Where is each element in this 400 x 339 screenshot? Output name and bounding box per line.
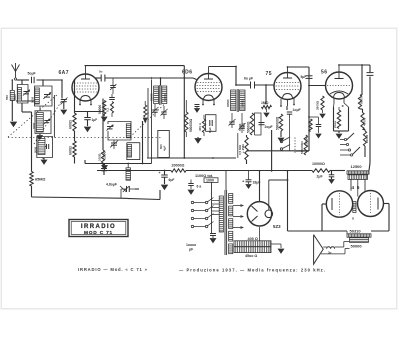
resistor R3 50000 [103,101,106,115]
loop L4 [35,111,51,134]
svg-text:4μF: 4μF [163,145,167,151]
svg-text:1μF: 1μF [92,118,98,122]
component box 4uF [158,131,170,158]
IFT1 lead [160,78,162,86]
svg-text:2600Ω: 2600Ω [316,100,320,110]
tube 6D6 top cap [204,78,213,80]
tube 75 cathode arc [283,94,293,100]
dashed link IF [130,105,164,138]
ground G7 [37,136,42,140]
bottom bus b [120,198,160,199]
coil L5 [38,139,45,155]
tube 5Z3 envelope [247,202,271,226]
svg-text:55913: 55913 [163,93,167,101]
svg-text:2oμF: 2oμF [265,125,273,129]
switch S1 wires [340,139,344,141]
resistor R18 [363,131,366,146]
varcap CV4 [44,120,49,122]
coil L8 [126,168,131,180]
ground G2 [43,158,45,160]
wire L5 stub [42,158,44,160]
wire 56 grid [309,85,326,87]
label box inner [71,222,126,235]
tube 6A7 envelope [72,74,99,101]
wire bus left [85,163,152,165]
transformer T3 secondary [229,194,233,204]
svg-text:5000: 5000 [360,97,364,104]
cathode loop [333,107,335,131]
resistor R2 600ohm [73,141,76,157]
resistor R25 100ohm [101,150,104,163]
wire pin bus [75,111,104,113]
tuning capacitor CV2 [44,94,50,96]
gang dashed link a [8,94,58,137]
wire pot bottom [296,150,309,152]
ground G6 [271,243,281,245]
wire 5Z3 cathode out [268,180,270,210]
wire bus drop to IFT2 [235,67,237,86]
IFT1 winding a [154,86,159,104]
capacitor C18 6uF [190,180,192,184]
wire bus to speaker [287,171,289,231]
tube 56 cathode arc [334,93,345,99]
grid loop [255,113,262,135]
right edge wire [369,65,371,72]
tube 56 top cap [335,78,344,80]
transformer T1 leads [350,179,352,190]
resistor R12 500000 [279,114,282,131]
wire 6A7 top bus [85,65,185,67]
transformer T3 core [224,190,226,255]
wire L4 stubs [39,106,41,111]
bottom bus [32,197,121,198]
svg-text:6D6: 6D6 [182,70,192,76]
tube 56 grid dash [327,85,351,87]
IFT2 winding b [240,90,245,111]
svg-text:2μF: 2μF [317,175,323,179]
svg-text:50000Ω: 50000Ω [247,121,251,133]
switch S1 contacts [344,138,346,140]
wire IFT2 to 75 diode [236,84,251,86]
IFT1 trimmer a [152,109,158,111]
svg-text:550: 550 [5,95,9,100]
IFT1 winding b [162,86,167,104]
svg-text:6600: 6600 [13,94,17,101]
tuning capacitor CV1 [23,91,29,93]
svg-text:65MΩ: 65MΩ [35,178,45,182]
wire cathode line [102,99,104,151]
IFT2 trimmer a [229,121,235,123]
IFT2 winding a [231,90,236,111]
capacitor C14 60pF [250,82,252,89]
svg-text:IRRADIO — Mod. « C 71 »: IRRADIO — Mod. « C 71 » [78,267,148,272]
capacitor C17 right [367,72,374,74]
svg-text:— Produzione 1937. — Media: — Produzione 1937. — Media frequenza: 23… [179,267,325,272]
tone wire [246,135,248,137]
tube 45 left grid [339,193,341,215]
capacitor C9 10uF [209,120,211,126]
T3 arrows [233,205,243,207]
svg-text:500000Ω: 500000Ω [189,118,193,132]
tube 5Z3 plates [252,206,258,212]
transformer T1 winding [348,175,368,180]
gang dashed link b [34,101,62,145]
osc varcap CV3 [107,126,113,128]
svg-text:600Ω: 600Ω [69,146,73,155]
IFT2 core [236,89,238,112]
svg-text:5μF: 5μF [301,75,307,79]
tube 45 left [326,191,352,217]
tone resistor R19 [245,137,248,160]
resistor R24 screen [144,105,147,117]
wire L1 to ground [11,101,13,122]
IFT2 trimmer b [239,125,245,127]
speaker voice coil [327,247,335,249]
resistor R11 1Mohm [262,105,272,108]
junction dots [235,66,237,68]
IFT1 core [159,85,161,105]
svg-text:+: + [159,171,161,175]
tube 6D6 pins [202,100,204,104]
wire 6A7 plate line [95,77,101,79]
switch S2 [280,140,282,142]
B+ bus [97,170,171,172]
wire diode load [265,85,267,105]
svg-text:6 a: 6 a [197,185,202,189]
svg-text:40000: 40000 [363,117,367,126]
ground G8 [63,102,65,109]
resistor R6 10000 [312,169,330,172]
capacitor C11 [286,106,288,110]
resistor R10 50000 [250,113,253,135]
tube 6A7 top cap [81,78,90,80]
resistor R16 [358,95,361,109]
svg-text:500000Ω: 500000Ω [300,141,304,154]
svg-text:0200: 0200 [31,96,35,103]
transformer T2 winding [350,238,369,243]
svg-text:0 μF: 0 μF [208,127,212,133]
svg-text:5o: 5o [99,70,103,74]
wire AVC drop [53,95,55,138]
svg-text:600: 600 [159,144,163,149]
wire loop1 top to line [21,80,23,85]
svg-text:5Z3: 5Z3 [273,224,281,229]
svg-text:MOD C 71: MOD C 71 [84,230,113,236]
capacitor C8 mains [126,186,128,192]
wire antenna to C1 [17,79,29,81]
tube 45 right plate [377,198,379,210]
osc loop 2 [127,143,140,160]
coil L4 wave band [36,113,43,133]
plate supply vertical [183,66,185,158]
svg-text:1000: 1000 [103,151,107,159]
coil L1 primary [10,91,14,101]
tube 45 left plate [331,198,333,210]
tube 56 pins [333,98,335,103]
svg-text:45oo Ω: 45oo Ω [245,254,257,258]
capacitor C12 [309,116,319,118]
filament coils [353,202,356,213]
svg-text:56: 56 [321,70,328,76]
trimmer C22 [112,78,114,85]
wire 75 top bus [288,66,310,68]
T3 selector wires [194,202,205,204]
padder capacitor C2 [46,144,48,149]
tube 6D6 grids [197,82,219,84]
label box outer [69,220,128,237]
resistor R15 cathode [337,110,340,129]
capacitor C15 on drop [306,75,313,77]
coil L2 secondary [18,88,22,102]
wire chain [360,94,362,96]
wire R1 [74,80,76,113]
wire risers [147,88,149,158]
resistor R9 400 [202,119,205,133]
svg-text:pF: pF [189,248,193,252]
resistor R17 [361,113,364,130]
capacitor C5 [103,164,105,169]
capacitor C6 6uF [164,171,166,175]
wire mid bus [147,157,236,159]
svg-text:6A7: 6A7 [59,70,69,76]
svg-text:02500: 02500 [226,99,230,107]
tank loop L2 [17,85,28,104]
tube 75 envelope [274,73,301,100]
svg-text:50310: 50310 [350,229,362,234]
bypass loop [206,115,217,132]
svg-text:400 Ω: 400 Ω [248,237,258,241]
wire grid bus [61,80,63,99]
tube 6D6 envelope [195,74,222,101]
svg-text:100Ω: 100Ω [98,153,102,161]
svg-text:50000: 50000 [98,105,102,114]
svg-text:6μF: 6μF [169,178,175,182]
ground G1 [11,122,17,127]
svg-text:20000Ω: 20000Ω [172,164,185,168]
svg-text:12500: 12500 [351,164,363,169]
capacitor C19 10000pF [210,233,216,235]
svg-text:75: 75 [266,71,273,77]
tube 45 right grid [370,193,372,214]
ballast box 1000 [204,178,218,183]
transformer T3 primary [219,196,223,232]
junction [42,79,44,81]
tube 75 top cap [283,77,292,79]
transformer T2 core [347,234,371,237]
svg-text:4 5: 4 5 [352,185,360,191]
loop L5 [37,137,53,158]
pot R13 20000 [309,119,312,132]
svg-text:1oμF: 1oμF [293,108,301,112]
B+ bus 3 [330,170,345,172]
T3 selector contacts a [191,201,193,203]
svg-text:400 A: 400 A [198,122,202,131]
wire R3 down [103,114,105,116]
resistor R1 600ohm [73,113,76,131]
AVC dashed line [8,137,162,139]
capacitor C21 grid [100,75,102,82]
resistor R8 500000 [185,112,188,132]
capacitor C10 [259,122,265,124]
speaker cone [314,235,324,265]
wire loop1 bottom [21,103,23,112]
svg-text:6o μF: 6o μF [244,77,253,81]
wire down left [11,80,13,90]
osc trimmer C4 [111,142,117,144]
svg-text:+ 1MΩ: + 1MΩ [241,143,245,153]
resistor R20 500000 [304,135,307,155]
resistor R7 65Mohm [31,112,33,172]
T3 selector contacts b [205,201,207,203]
osc coil L6 [126,124,130,138]
transformer T1 core [347,171,369,174]
grid leak C16 R23 [109,97,115,99]
svg-text:50000: 50000 [351,244,363,249]
capacitor C3 1uF [87,112,89,118]
wire box down [211,182,213,233]
T3 tap wires [212,200,219,202]
coil L3 [35,88,40,104]
antenna A1 [12,65,20,72]
T3 selector levers [208,198,214,202]
svg-text:0,1: 0,1 [106,107,110,112]
resistor R14 5000 [321,96,324,110]
tube 45 right [358,191,384,217]
wire R2 down [74,157,76,164]
wire 5Z3 bottom [259,227,261,241]
tube 5Z3 cathode circle [265,210,273,218]
wire T2 left [322,230,347,232]
tube 6A7 grids [74,82,96,84]
svg-text:55913: 55913 [241,99,245,107]
osc coil L7 [127,145,131,158]
mid vertical [271,130,273,171]
osc loop 1 [108,122,131,141]
capacitor C20 cath [195,104,200,106]
svg-text:4,8oμF: 4,8oμF [106,183,117,187]
wire bus to T3 [225,171,227,191]
svg-text:1oooo: 1oooo [186,243,196,247]
wire 56 top bus [339,64,370,66]
ground G5 [338,131,340,133]
wire tank bottoms [16,100,35,102]
capacitor C7 2uF [331,171,333,175]
capacitor C1 5000pF [31,77,33,84]
tube 6D6 cathode arc [204,95,214,101]
svg-text:5oμF: 5oμF [28,72,36,76]
svg-text:10000: 10000 [365,134,369,143]
svg-text:+1MΩ: +1MΩ [242,122,246,131]
ground G3 [197,137,199,138]
svg-text:IRRADIO: IRRADIO [81,224,116,230]
tube 6A7 pins [79,100,81,104]
wire 45 plates [322,203,326,205]
speaker wires [323,246,326,248]
resistor block R22 [234,247,271,253]
svg-text:500000Ω: 500000Ω [276,116,280,130]
IFT1 trimmer b [161,111,167,113]
svg-text:10000Ω: 10000Ω [312,162,325,166]
wire 75 pins [280,99,282,106]
tube 56 envelope [326,72,353,99]
svg-text:600Ω: 600Ω [69,120,73,129]
resistor block R21 [234,241,271,247]
tube 6A7 cathode arc [81,96,91,102]
resistor R5 20000 [171,169,186,172]
wire 6D6 top bus [209,66,237,68]
ground G4 [280,131,282,137]
trimmer CV5 [61,99,67,101]
tank loop L3 [35,86,53,106]
B+ bus 2 [186,170,312,172]
tube 75 grids [276,82,299,84]
wire loop2 top [42,80,44,86]
wire 5Z3 plate feed [259,171,261,202]
svg-text:1000: 1000 [206,179,214,183]
svg-text:1MΩ: 1MΩ [261,101,269,105]
